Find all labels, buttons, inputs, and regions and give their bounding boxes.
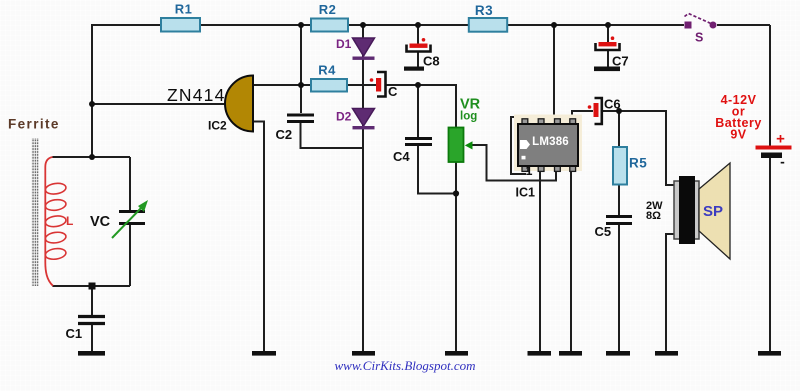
battery positive plate [756,146,792,150]
electrolytic capacitor C8 negative cup [407,45,431,52]
wire C7 stem lower [607,50,609,67]
capacitor C5 [606,217,632,224]
wire R5 to C5 [618,184,620,215]
resistor R2 [311,19,348,32]
capacitor C7 polarity dot [611,36,615,40]
svg-text:1: 1 [526,164,533,178]
svg-text:www.CirKits.Blogspot.com: www.CirKits.Blogspot.com [335,358,476,373]
coil L loop 5 [45,247,67,260]
svg-text:LM386: LM386 [532,136,569,148]
resistor R5 [613,147,627,185]
coil L loop 2 [45,198,67,211]
svg-text:L: L [66,214,73,228]
wire IC2 input [92,103,227,105]
capacitor C1 [78,317,105,324]
IC1 pin 4 bottom-right [570,166,576,172]
diode D2 [353,109,375,130]
electrolytic capacitor C positive plate [376,78,381,92]
wire top rail left of switch [92,24,684,26]
IC1 notch marker [520,140,530,149]
capacitor C8 polarity dot [422,38,426,42]
wire supply to IC1 pin6 [553,25,555,120]
wire C1 stem upper [91,286,93,315]
svg-text:C5: C5 [595,224,612,239]
svg-text:R2: R2 [319,2,337,17]
IC1 pin1 dot marker [522,156,526,160]
speaker SP magnet [679,176,695,244]
node IC2 input [89,101,95,107]
variable capacitor VC plates [119,212,145,224]
wire left rail [91,24,93,157]
svg-text:C: C [388,84,398,99]
ground (IC2) [252,351,276,356]
svg-text:R1: R1 [175,2,193,17]
capacitor C6 polarity dot [588,105,592,109]
node rail-C7 [605,22,611,28]
local ground bar (C8) [404,67,424,71]
node tank bottom [89,283,96,290]
wire tank right edge upper [129,157,131,210]
svg-text:R5: R5 [629,156,647,171]
node C4 top [415,82,421,88]
wire battery positive lead [769,25,771,146]
node rail-R2 branch [298,22,304,28]
capacitor C2 [287,115,314,122]
wire IC2 output to R4 [253,84,311,86]
IC1 pin 2 bottom [538,166,544,172]
IC1 pin 3 bottom [555,166,561,172]
IC1 pin 8 top-left [522,119,528,125]
svg-text:C4: C4 [393,149,410,164]
coil L spine [45,157,53,286]
svg-text:+: + [776,131,785,148]
wire speaker bottom to ground [666,234,674,351]
wire IC1 output pin to C6 [572,111,593,120]
speaker SP cone [699,163,730,259]
wire C1 stem lower [91,325,93,351]
switch S pivot [710,22,717,29]
ground (battery) [758,351,781,356]
electrolytic capacitor C negative bracket [377,72,386,97]
wire top rail right of switch [717,24,770,26]
wire IC1 pin4 to ground [570,170,572,351]
potentiometer VR wiper arrow [465,141,473,149]
wire R5 stem upper [618,111,620,147]
IC1 pin 7 top [538,119,544,125]
IC1 pin 5 top-right [570,119,576,125]
battery negative plate [761,153,782,159]
node rail-D1 [360,22,366,28]
variable capacitor VC arrow [112,206,143,238]
wire C2 bottom to D2 line [301,123,364,148]
capacitor C4 [405,139,432,145]
resistor R1 [161,18,200,32]
node R4 left [298,82,304,88]
wire C4 bottom to VR bottom node [418,145,456,194]
ground (speaker) [655,351,678,356]
wire cap C to VR top [386,85,456,128]
IC1 pin 6 top [555,119,561,125]
ground (IC1 pin4) [559,351,582,356]
ferrite rod [32,138,39,286]
wire R4 to cap C [347,84,376,86]
svg-text:log: log [460,111,477,123]
wire C5 to ground [618,225,620,351]
electrolytic capacitor C6 positive plate [594,103,599,117]
svg-text:IC2: IC2 [208,119,227,133]
electrolytic capacitor C7 negative cup [596,43,620,50]
coil L loop 1 [45,182,67,195]
svg-text:C8: C8 [423,53,440,68]
wire battery negative to ground [769,157,771,351]
wire diode chain vertical [362,25,364,351]
svg-text:C1: C1 [66,326,83,341]
speaker SP frame [674,181,699,239]
switch S lever [685,14,713,25]
node tank top [89,154,95,160]
wire C4 stem upper [417,85,419,138]
wire tank right edge lower [129,225,131,286]
ground (C5) [606,351,630,356]
coil L loop 4 [45,231,67,244]
potentiometer VR body [449,128,464,163]
wire C8 stem upper [417,25,419,44]
resistor R3 [469,18,507,32]
wire tank bottom edge [53,285,131,287]
electrolytic capacitor C7 positive plate [599,42,617,46]
wire C8 stem lower [417,52,419,67]
wire VR wiper to pin 3 [471,145,556,181]
diode D1 [353,38,375,60]
svg-text:C7: C7 [612,53,629,68]
svg-text:SP: SP [703,203,723,220]
svg-text:D1: D1 [336,37,352,51]
IC1 LM386 body [518,124,578,166]
wire pin1-pin8 gain bracket [511,117,526,174]
ground (IC1 pin2) [528,351,552,356]
svg-text:9V: 9V [730,128,746,142]
capacitor C polarity dot [370,78,374,82]
svg-text:VC: VC [90,214,111,230]
svg-text:R3: R3 [475,3,493,18]
svg-text:IC1: IC1 [516,186,536,200]
wire IC1 pin2 to ground [539,170,541,351]
ground (diode chain) [352,351,375,356]
wire tank top edge [53,156,131,158]
IC1 pin 1 bottom-left [522,166,528,172]
svg-text:ZN414: ZN414 [167,85,226,105]
ground (C1) [78,351,105,356]
svg-text:D2: D2 [336,110,352,124]
svg-text:-: - [780,154,785,170]
electrolytic capacitor C8 positive plate [410,44,428,48]
node rail-C8 [415,22,421,28]
svg-text:S: S [695,31,703,45]
ground (VR) [445,351,468,356]
wire C7 stem upper [607,25,609,42]
IC1 LM386 halo [514,115,582,172]
node C4 bottom / VR return [453,190,459,196]
node C6-R5 [616,108,622,114]
wire VR bottom to ground [455,162,457,351]
svg-text:C2: C2 [276,127,293,142]
resistor R4 [311,79,347,92]
IC2 ZN414 body [225,76,253,132]
electrolytic capacitor C6 negative bracket [595,98,602,124]
svg-text:R4: R4 [318,63,336,78]
wire C6 to speaker branch [602,111,674,185]
coil L loop 3 [45,215,67,228]
svg-text:8Ω: 8Ω [646,210,661,222]
node rail-IC1 supply [551,22,557,28]
switch S contact square [685,22,692,29]
local ground bar (C7) [594,67,620,72]
wire IC2 ground lead [253,122,264,352]
svg-text:Ferrite: Ferrite [8,117,60,132]
wire R2 branch down to C2 [300,25,302,113]
